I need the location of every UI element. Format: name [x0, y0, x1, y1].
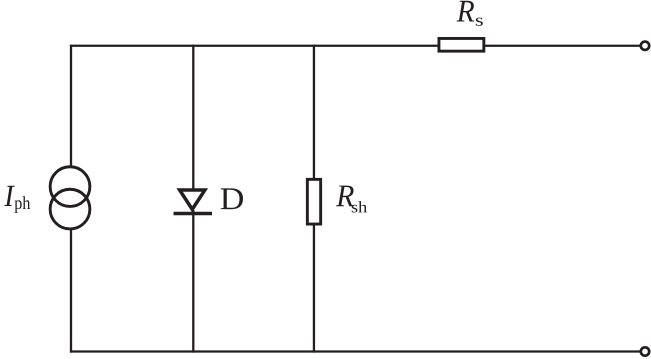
diode D cathode bar [174, 212, 213, 215]
label R of Rs [457, 1, 475, 22]
label sh subscript [352, 201, 367, 212]
terminal bottom-right [641, 347, 649, 355]
label I (italic) [4, 186, 15, 206]
wire Rsh branch [313, 45, 315, 353]
resistor Rsh (vertical box) [307, 179, 320, 224]
wire left vertical lower [70, 230, 72, 353]
wire diode branch upper [192, 45, 194, 190]
diode D (triangle outline, filled evenodd) [176, 188, 208, 212]
wire diode branch lower [192, 210, 194, 353]
label ph subscript [15, 196, 31, 213]
wire top horizontal [70, 45, 640, 47]
label D [221, 188, 243, 209]
wire left vertical upper [70, 45, 72, 167]
terminal top-right [641, 42, 649, 50]
current source Iph (two overlapping circles) [50, 167, 90, 207]
wire bottom horizontal [70, 350, 640, 352]
resistor Rs (horizontal box) [439, 38, 484, 51]
label s subscript [476, 18, 483, 26]
label R of Rsh [336, 186, 354, 207]
